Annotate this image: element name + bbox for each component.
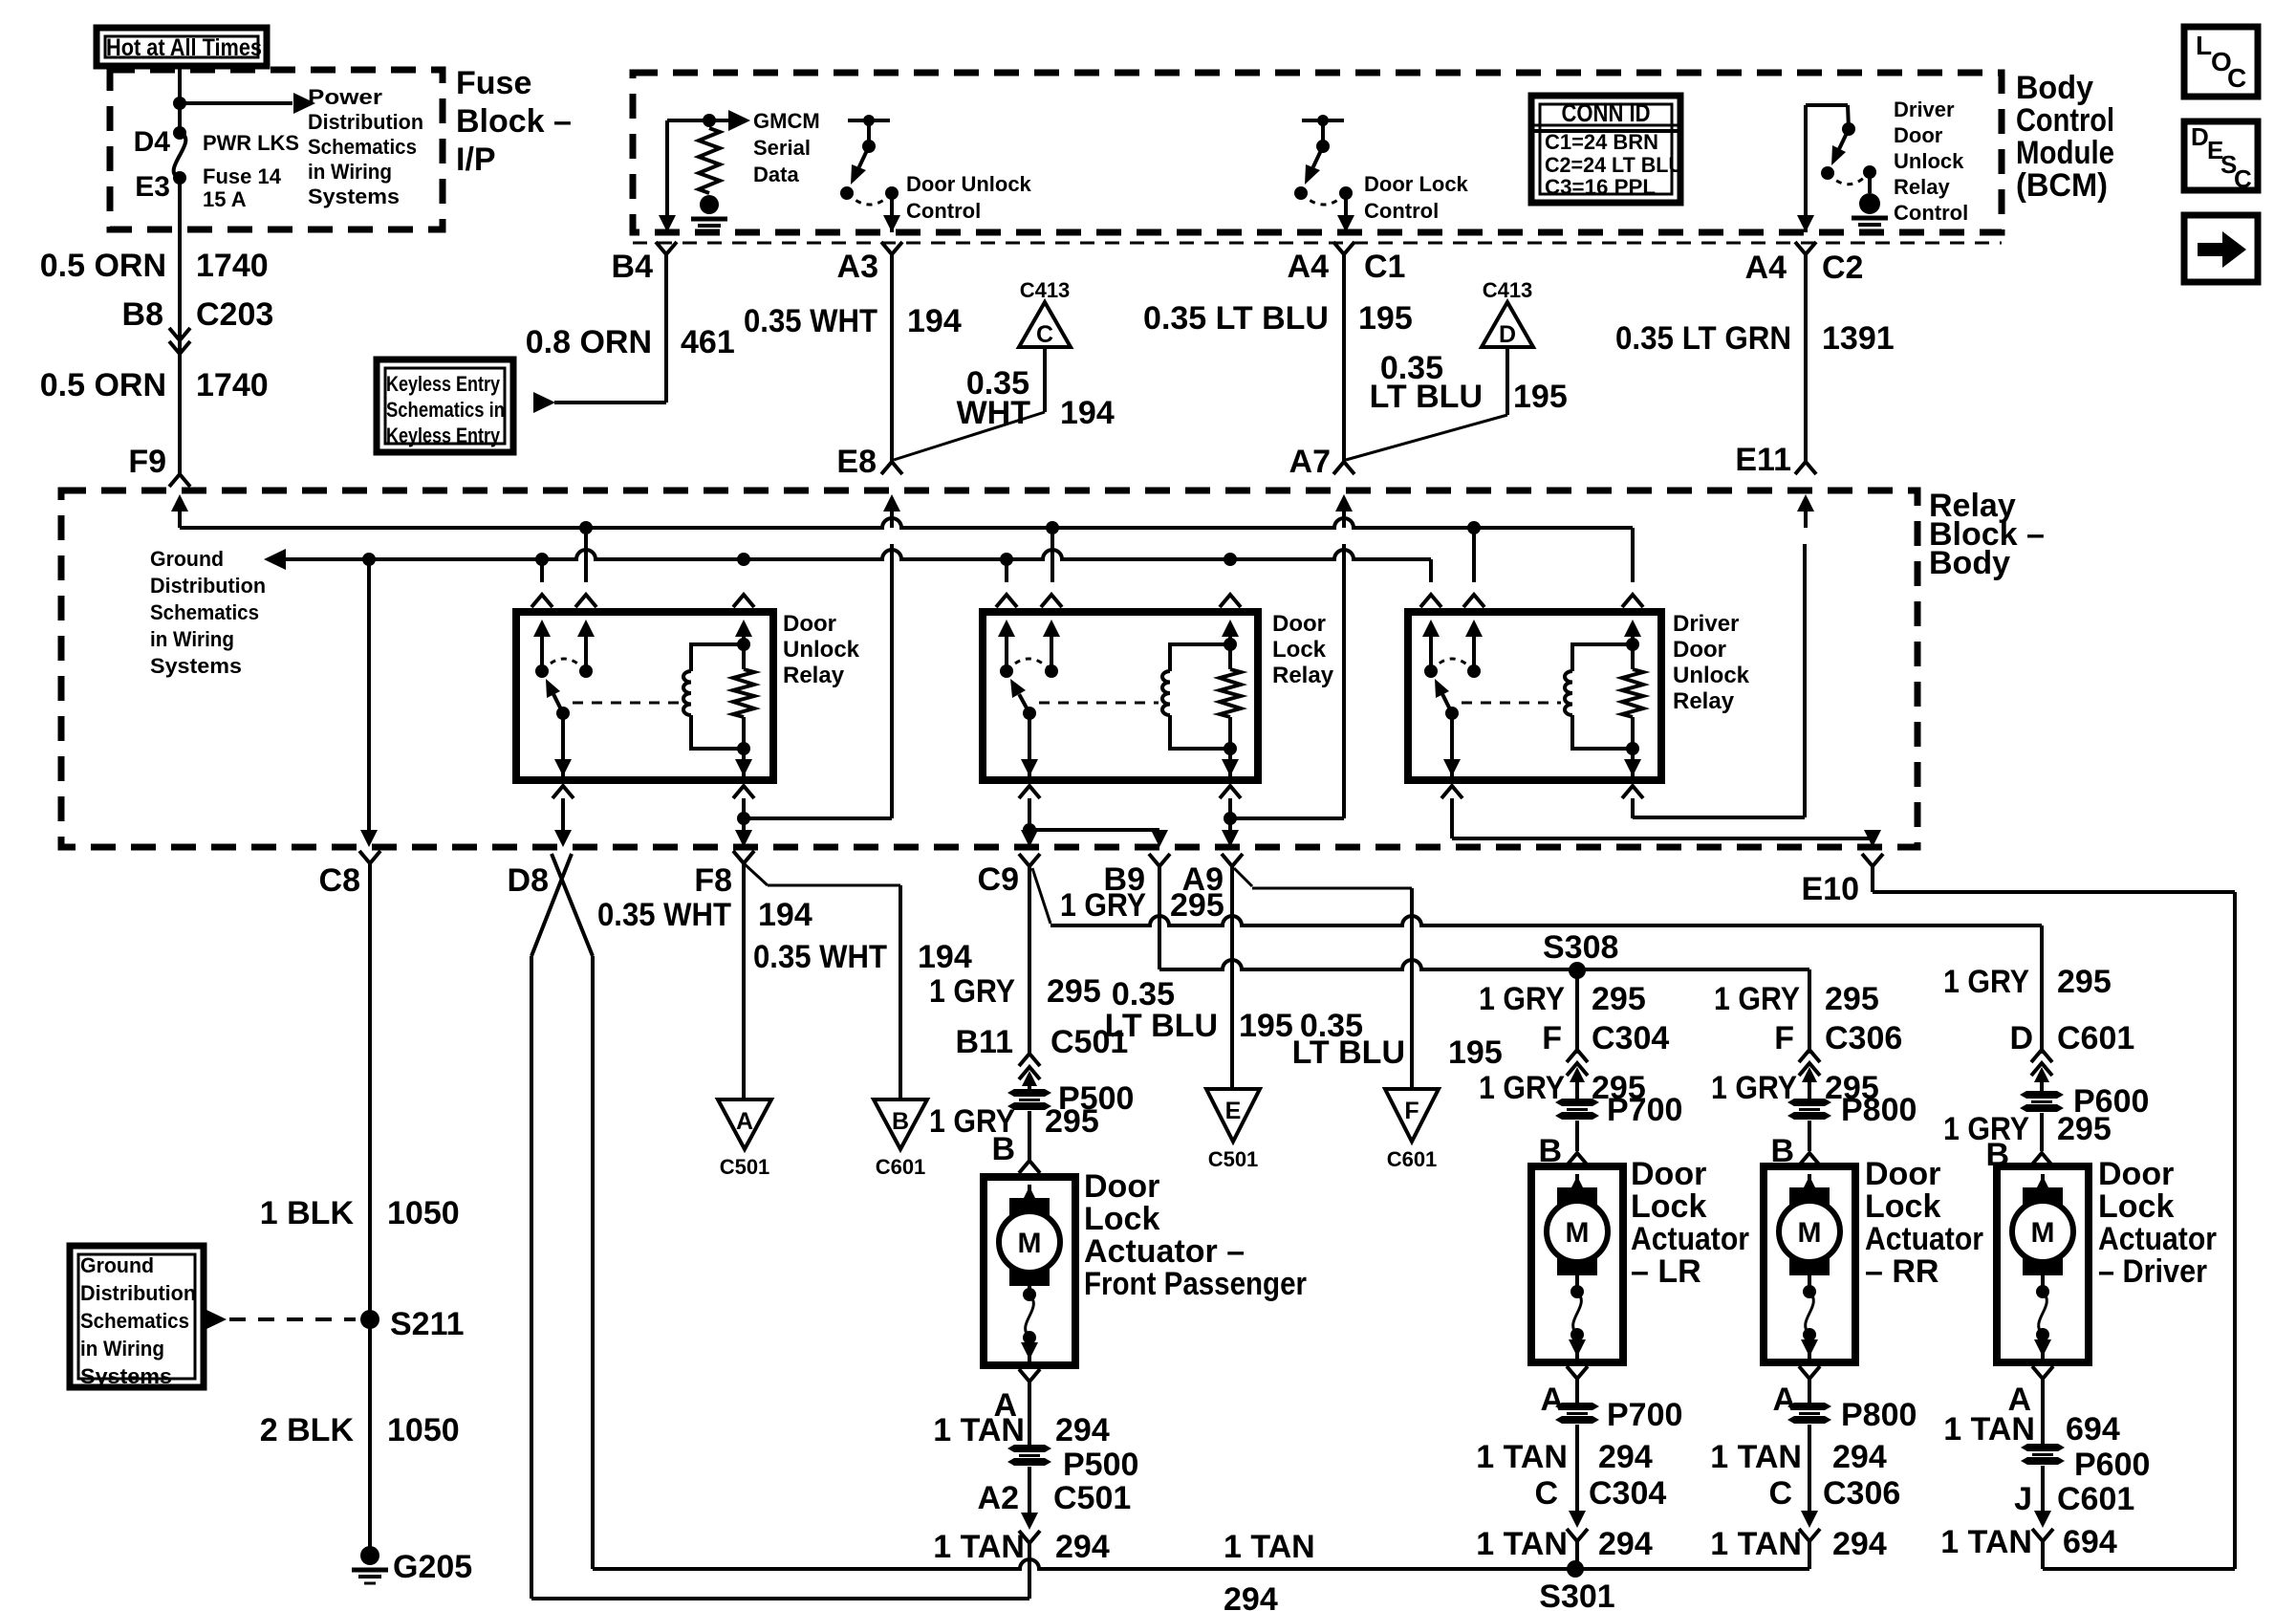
connector door unlock switch terminal 1 bbox=[531, 595, 552, 671]
label 1 GRY 295 below P600 bbox=[1943, 1111, 2112, 1147]
svg-text:C306: C306 bbox=[1823, 1475, 1900, 1512]
svg-text:A: A bbox=[1772, 1382, 1796, 1418]
svg-text:C501: C501 bbox=[1053, 1480, 1131, 1516]
svg-text:PWR LKS: PWR LKS bbox=[203, 131, 299, 155]
label 1 GRY 295 below C304 bbox=[1479, 1070, 1646, 1106]
svg-text:1740: 1740 bbox=[196, 248, 269, 284]
motor M driver bbox=[2012, 1174, 2073, 1275]
wire C9 vertical to B11 bbox=[1028, 866, 1031, 1056]
svg-text:– Driver: – Driver bbox=[2098, 1253, 2207, 1290]
svg-text:0.35 LT GRN: 0.35 LT GRN bbox=[1615, 320, 1791, 357]
svg-text:D: D bbox=[2191, 122, 2209, 151]
svg-text:M: M bbox=[1566, 1217, 1590, 1249]
svg-text:C203: C203 bbox=[196, 296, 273, 333]
svg-text:A: A bbox=[1540, 1382, 1564, 1418]
svg-text:195: 195 bbox=[1358, 300, 1413, 337]
wire P600 to driver actuator bbox=[2040, 1113, 2044, 1151]
inductor door lock coil bbox=[1162, 671, 1170, 715]
svg-text:1740: 1740 bbox=[196, 367, 269, 403]
svg-text:295: 295 bbox=[1045, 1103, 1099, 1140]
svg-text:1 TAN: 1 TAN bbox=[1940, 1524, 2032, 1560]
wire D8 right branch to S301 run bbox=[591, 956, 595, 1569]
label 1 TAN 294 above P500 bbox=[933, 1412, 1110, 1448]
svg-text:295: 295 bbox=[1825, 981, 1879, 1017]
connector pin F8 bbox=[694, 851, 754, 899]
svg-text:Unlock: Unlock bbox=[1894, 149, 1964, 173]
fuse block I/P dashed box bbox=[110, 70, 443, 229]
svg-text:1 TAN: 1 TAN bbox=[933, 1529, 1025, 1565]
svg-text:C306: C306 bbox=[1825, 1020, 1902, 1056]
svg-text:LT BLU: LT BLU bbox=[1370, 379, 1483, 415]
pin B RR actuator bbox=[1770, 1133, 1820, 1169]
svg-text:I/P: I/P bbox=[456, 142, 496, 178]
svg-text:Distribution: Distribution bbox=[150, 574, 266, 598]
svg-text:194: 194 bbox=[918, 939, 972, 975]
svg-text:1 TAN: 1 TAN bbox=[1710, 1439, 1802, 1475]
motor M RR bbox=[1779, 1174, 1840, 1275]
ground GMCM termination bbox=[691, 195, 727, 232]
pin B LR actuator bbox=[1538, 1133, 1588, 1169]
svg-text:Actuator: Actuator bbox=[2098, 1221, 2217, 1257]
svg-text:A4: A4 bbox=[1288, 249, 1330, 285]
svg-text:1 TAN: 1 TAN bbox=[933, 1412, 1025, 1448]
label C601 under triangle B bbox=[876, 1155, 926, 1179]
svg-text:2 BLK: 2 BLK bbox=[260, 1412, 355, 1448]
wire lock switch junction to B9 bbox=[1029, 830, 1168, 847]
label 0.35 WHT 194 at F8 bbox=[597, 897, 812, 933]
svg-text:D: D bbox=[1499, 321, 1516, 348]
svg-text:A4: A4 bbox=[1745, 250, 1787, 286]
node lock relay switch output junction bbox=[1023, 823, 1036, 837]
wire front passenger return to lower run bbox=[1028, 1543, 1031, 1599]
svg-text:195: 195 bbox=[1239, 1008, 1293, 1044]
svg-text:Door: Door bbox=[2098, 1156, 2174, 1192]
label Power Distribution Schematics in Wiring Systems bbox=[308, 85, 423, 208]
grommet P600 lower bbox=[2021, 1379, 2150, 1483]
pin E3 label bbox=[135, 171, 170, 203]
svg-text:Driver: Driver bbox=[1894, 98, 1955, 121]
svg-text:C2: C2 bbox=[1822, 250, 1863, 286]
svg-text:F9: F9 bbox=[128, 444, 166, 480]
label 1 TAN 694 above P600 bbox=[1943, 1411, 2120, 1448]
ground G205 bbox=[352, 1546, 472, 1585]
svg-text:Keyless Entry: Keyless Entry bbox=[386, 424, 501, 447]
svg-text:Keyless Entry: Keyless Entry bbox=[386, 372, 501, 396]
svg-text:1 TAN: 1 TAN bbox=[1476, 1439, 1568, 1475]
svg-text:C304: C304 bbox=[1589, 1475, 1666, 1512]
svg-text:295: 295 bbox=[1047, 973, 1101, 1010]
label 1 TAN 294 below C304 bbox=[1476, 1526, 1653, 1562]
svg-text:0.35 LT BLU: 0.35 LT BLU bbox=[1143, 300, 1329, 337]
pin D4 label bbox=[134, 126, 171, 158]
svg-text:195: 195 bbox=[1513, 379, 1568, 415]
inline connector C203 bbox=[169, 296, 273, 354]
wire unlock coil junction to E8 riser bbox=[744, 544, 892, 818]
wire RR return to S301 run bbox=[1808, 1541, 1811, 1569]
resistor GMCM terminating bbox=[699, 128, 720, 193]
wire lock coil junction to A7 riser bbox=[1230, 544, 1344, 818]
svg-text:M: M bbox=[2031, 1217, 2055, 1249]
label door unlock bbox=[783, 611, 860, 688]
svg-text:Control: Control bbox=[1894, 201, 1968, 225]
wire door unlock coil parallel frame bbox=[691, 638, 750, 755]
wire lock switch junction to C9 bbox=[1021, 818, 1038, 847]
wire C2 to E11 bbox=[1804, 254, 1808, 462]
label 1 TAN 294 below C306 bbox=[1710, 1526, 1887, 1562]
switch driver door unlock relay control bbox=[1806, 105, 1876, 185]
label 0.35 WHT 194 at A3 bbox=[744, 303, 962, 339]
wire door unlock switch output to box bottom bbox=[554, 713, 572, 780]
svg-text:A: A bbox=[736, 1108, 753, 1135]
svg-text:S301: S301 bbox=[1539, 1578, 1614, 1611]
svg-text:Relay: Relay bbox=[1673, 688, 1735, 714]
resistor door unlock coil suppression bbox=[733, 669, 754, 717]
svg-text:294: 294 bbox=[1598, 1439, 1653, 1475]
arrow and dashed lead to S211 bbox=[205, 1309, 356, 1330]
svg-text:D8: D8 bbox=[508, 862, 549, 899]
legend DESC box bbox=[2184, 121, 2258, 193]
label 0.35 LT BLU 195 at triangle F wire bbox=[1292, 1008, 1503, 1071]
connector pin E11 bbox=[1735, 442, 1816, 528]
ground distribution schematics reference box bbox=[70, 1246, 204, 1388]
label C501 under triangle E bbox=[1208, 1147, 1259, 1171]
switch driver position contact bbox=[2034, 1262, 2051, 1359]
svg-text:Door: Door bbox=[1631, 1156, 1706, 1192]
Hot at All Times power tag box bbox=[97, 28, 267, 66]
svg-text:694: 694 bbox=[2063, 1524, 2117, 1560]
fuse F14 PWR LKS bbox=[173, 126, 186, 185]
off-page triangle A bbox=[718, 1099, 771, 1149]
connector pin C8 bbox=[319, 851, 380, 899]
svg-text:S308: S308 bbox=[1543, 929, 1618, 966]
svg-text:C: C bbox=[1534, 1475, 1558, 1512]
svg-text:(BCM): (BCM) bbox=[2016, 167, 2108, 204]
svg-text:1 GRY: 1 GRY bbox=[929, 973, 1015, 1010]
svg-text:WHT: WHT bbox=[957, 395, 1031, 431]
connector A RR bbox=[1772, 1366, 1820, 1418]
inline connector D C601 bbox=[2009, 1020, 2134, 1092]
relay door unlock box bbox=[516, 612, 773, 780]
connector door unlock switch terminal 2 bbox=[575, 595, 596, 671]
label 1 GRY 295 below C306 bbox=[1711, 1070, 1879, 1106]
svg-text:Fuse: Fuse bbox=[456, 65, 531, 101]
svg-text:D: D bbox=[2009, 1020, 2033, 1056]
connector pin A4 C2 bbox=[1745, 242, 1864, 286]
svg-text:Front Passenger: Front Passenger bbox=[1084, 1266, 1307, 1302]
svg-text:1 TAN: 1 TAN bbox=[1943, 1411, 2035, 1448]
svg-text:Driver: Driver bbox=[1673, 611, 1739, 637]
label 2 BLK 1050 bbox=[260, 1412, 460, 1448]
wire B9 vertical and run to S308 bbox=[1159, 866, 1809, 1054]
svg-text:in Wiring: in Wiring bbox=[150, 627, 234, 651]
wire fuse output down to relay block F9 bbox=[178, 178, 182, 474]
node ground bus to lock relay switch bbox=[1000, 553, 1013, 566]
pin B driver actuator bbox=[1985, 1137, 2052, 1173]
door lock actuator RR box bbox=[1764, 1166, 1855, 1362]
node ground bus to unlock relay switch bbox=[535, 553, 549, 566]
ground driver unlock relay control pole bbox=[1852, 172, 1888, 231]
connector door lock switch terminal 2 bbox=[1041, 595, 1062, 671]
svg-text:Unlock: Unlock bbox=[783, 637, 860, 663]
svg-text:Relay: Relay bbox=[783, 663, 845, 688]
svg-text:294: 294 bbox=[1832, 1439, 1887, 1475]
wire door lock mechanical link dashed bbox=[1039, 702, 1159, 705]
svg-text:A7: A7 bbox=[1289, 444, 1331, 480]
switch door unlock control bbox=[840, 115, 899, 205]
connector pin B9 bbox=[1104, 854, 1170, 898]
svg-text:Data: Data bbox=[753, 163, 799, 186]
wire lock relay terminal2 from power bus bbox=[1051, 528, 1054, 582]
svg-text:Actuator: Actuator bbox=[1631, 1221, 1749, 1257]
svg-text:C: C bbox=[1768, 1475, 1792, 1512]
wire driver switch output to E10 bbox=[1452, 818, 1881, 847]
svg-text:GMCM: GMCM bbox=[753, 109, 820, 133]
legend LOC box bbox=[2184, 27, 2258, 97]
connector door lock switch output bbox=[1019, 786, 1040, 818]
wire triangle C to E8 bbox=[894, 347, 1045, 460]
connector pin E10 bbox=[1802, 854, 1884, 907]
wire A3 to E8 bbox=[890, 254, 894, 462]
switch front passenger position contact bbox=[1021, 1273, 1038, 1361]
connector pin A9 bbox=[1182, 854, 1243, 898]
svg-text:C1: C1 bbox=[1364, 249, 1405, 285]
wire D8 left branch to front passenger return bbox=[530, 956, 533, 1599]
svg-text:A2: A2 bbox=[978, 1480, 1019, 1516]
svg-text:Body: Body bbox=[2016, 70, 2093, 106]
svg-text:1391: 1391 bbox=[1822, 320, 1895, 357]
switch door unlock contacts bbox=[535, 659, 593, 720]
svg-text:C: C bbox=[2234, 164, 2252, 193]
label 1 TAN 294 at P800 bbox=[1710, 1439, 1887, 1475]
svg-text:1 TAN: 1 TAN bbox=[1224, 1529, 1315, 1565]
node lock relay coil output junction bbox=[1224, 812, 1237, 825]
off-page triangle E bbox=[1206, 1089, 1260, 1142]
svg-text:0.35 WHT: 0.35 WHT bbox=[753, 939, 887, 975]
node ground bus to lock relay coil bbox=[1224, 553, 1237, 566]
label Door Lock Actuator LR bbox=[1631, 1156, 1749, 1290]
wire unlock relay switch output to D8 bbox=[554, 818, 572, 847]
resistor door lock coil suppression bbox=[1220, 669, 1241, 717]
svg-text:CONN ID: CONN ID bbox=[1562, 98, 1651, 127]
connector driver door unlock coil terminal bbox=[1622, 595, 1643, 644]
door lock actuator driver box bbox=[1997, 1166, 2089, 1362]
svg-text:294: 294 bbox=[1224, 1581, 1278, 1611]
svg-text:194: 194 bbox=[907, 303, 962, 339]
svg-text:E8: E8 bbox=[836, 444, 877, 480]
svg-text:1 BLK: 1 BLK bbox=[260, 1195, 355, 1231]
svg-text:Actuator –: Actuator – bbox=[1084, 1233, 1245, 1270]
label 0.35 LT BLU 195 at triangle D bbox=[1370, 350, 1568, 415]
inline connector J C601 bbox=[2014, 1466, 2134, 1541]
svg-text:295: 295 bbox=[1170, 887, 1224, 924]
label 1 TAN 694 below J bbox=[1940, 1524, 2117, 1560]
wire triangle D to A7 bbox=[1346, 347, 1507, 460]
svg-text:1 GRY: 1 GRY bbox=[1711, 1070, 1797, 1106]
label Relay Block - Body bbox=[1929, 488, 2045, 581]
label 1 GRY 295 above B11 bbox=[929, 973, 1101, 1010]
svg-text:C: C bbox=[2227, 63, 2246, 93]
wire ground bus with left arrow bbox=[264, 549, 1431, 570]
grommet P700 upper bbox=[1555, 1092, 1682, 1128]
svg-text:C9: C9 bbox=[978, 861, 1019, 898]
svg-text:Distribution: Distribution bbox=[308, 110, 423, 134]
svg-text:F: F bbox=[1404, 1098, 1419, 1124]
svg-text:Ground: Ground bbox=[80, 1253, 154, 1277]
svg-text:B: B bbox=[892, 1108, 909, 1135]
svg-text:B: B bbox=[991, 1131, 1015, 1167]
connector A LR bbox=[1540, 1366, 1588, 1418]
connector door unlock coil terminal bbox=[733, 595, 754, 644]
inline connector C C304 bbox=[1534, 1425, 1666, 1541]
svg-text:Lock: Lock bbox=[1084, 1201, 1159, 1237]
wire door unlock coil output to box bottom bbox=[735, 749, 752, 780]
connector door lock coil terminal bbox=[1220, 595, 1241, 644]
svg-text:1 GRY: 1 GRY bbox=[1943, 964, 2029, 1000]
svg-text:Relay: Relay bbox=[1894, 175, 1950, 199]
svg-text:Body: Body bbox=[1929, 545, 2010, 581]
inline connector C C306 bbox=[1768, 1425, 1900, 1541]
wire driver relay terminal1 from ground bus end bbox=[1429, 559, 1433, 582]
svg-text:C601: C601 bbox=[1387, 1147, 1438, 1171]
resistor driver door unlock coil suppression bbox=[1622, 669, 1643, 717]
svg-text:0.5 ORN: 0.5 ORN bbox=[40, 248, 166, 284]
wire driver door unlock coil output to box bottom bbox=[1624, 749, 1641, 780]
svg-text:1 GRY: 1 GRY bbox=[1060, 887, 1146, 924]
svg-text:E10: E10 bbox=[1802, 871, 1860, 907]
inductor driver door unlock coil bbox=[1565, 671, 1572, 715]
svg-text:1 GRY: 1 GRY bbox=[1479, 981, 1565, 1017]
wire driver relay coil feed from power bus end bbox=[1631, 528, 1635, 582]
wire P500 to actuator B bbox=[1028, 1111, 1031, 1161]
svg-text:B4: B4 bbox=[612, 249, 654, 285]
label Door Lock Actuator RR bbox=[1865, 1156, 1983, 1290]
svg-text:M: M bbox=[1018, 1228, 1042, 1259]
wire door lock switch output to box bottom bbox=[1021, 713, 1038, 780]
wire A9 branch to triangle F bbox=[1234, 868, 1412, 1089]
wire driver return to E10 drop bbox=[2041, 1541, 2045, 1569]
svg-text:D4: D4 bbox=[134, 126, 171, 158]
label Fuse Block - I/P bbox=[456, 65, 572, 178]
svg-text:Unlock: Unlock bbox=[1673, 663, 1750, 688]
wire driver relay terminal2 from power bus bbox=[1472, 528, 1476, 582]
svg-text:in Wiring: in Wiring bbox=[308, 160, 392, 184]
label GMCM Serial Data bbox=[753, 109, 820, 186]
connector A front passenger bbox=[993, 1369, 1040, 1424]
wire C8 drop inside relay block bbox=[360, 559, 378, 847]
arrow to Power Distribution Schematics reference bbox=[180, 93, 315, 114]
relay door lock box bbox=[983, 612, 1258, 780]
wire lock relay terminal1 from ground bus bbox=[1005, 559, 1008, 582]
node power bus to driver relay bbox=[1467, 521, 1481, 534]
wire C9 branch run to driver actuator feed bbox=[1032, 868, 2042, 1054]
wire driver door unlock coil parallel frame bbox=[1572, 638, 1639, 755]
svg-text:0.8 ORN: 0.8 ORN bbox=[526, 324, 652, 360]
wire from Hot at All Times into fuse block bbox=[178, 63, 182, 133]
node splice S308 bbox=[1543, 929, 1618, 979]
svg-text:294: 294 bbox=[1598, 1526, 1653, 1562]
svg-text:1 GRY: 1 GRY bbox=[1479, 1070, 1565, 1106]
arrow GMCM serial data reference bbox=[709, 110, 750, 131]
door lock actuator front passenger box bbox=[984, 1177, 1075, 1365]
connector pin A7 bbox=[1289, 444, 1354, 528]
svg-text:295: 295 bbox=[2057, 1111, 2112, 1147]
grommet P800 lower bbox=[1787, 1379, 1917, 1433]
switch door lock control bbox=[1294, 115, 1353, 205]
label C413 at triangle C bbox=[1020, 278, 1071, 302]
wire unlock coil junction to F8 bbox=[735, 818, 752, 847]
connector door unlock switch output bbox=[552, 786, 574, 818]
wire P800 to RR actuator bbox=[1808, 1121, 1811, 1151]
svg-text:C601: C601 bbox=[2057, 1481, 2134, 1517]
svg-text:C8: C8 bbox=[319, 862, 360, 899]
svg-text:E3: E3 bbox=[135, 171, 170, 203]
svg-text:P600: P600 bbox=[2074, 1447, 2150, 1483]
svg-text:Control: Control bbox=[2016, 102, 2114, 139]
off-page triangle B bbox=[874, 1099, 927, 1149]
wire C8 to G205 bbox=[368, 863, 372, 1547]
inductor door unlock coil bbox=[683, 671, 691, 715]
wire F8 branch to triangle B bbox=[744, 863, 900, 1099]
connector pin E8 bbox=[836, 444, 902, 528]
svg-text:Door: Door bbox=[1272, 611, 1326, 637]
svg-text:Hot at All Times: Hot at All Times bbox=[106, 34, 262, 61]
label 1 GRY 295 above C601 bbox=[1943, 964, 2112, 1000]
node GMCM junction bbox=[703, 114, 716, 127]
connector pin D8 bbox=[508, 854, 593, 956]
connector pin C9 bbox=[978, 854, 1040, 898]
motor M LR bbox=[1547, 1174, 1608, 1275]
svg-text:G205: G205 bbox=[393, 1549, 472, 1585]
connector driver door unlock coil output bbox=[1622, 786, 1643, 818]
wire door lock coil output to box bottom bbox=[1222, 749, 1239, 780]
connector pin A4 C1 bbox=[1288, 242, 1406, 285]
label Ground Distribution Schematics in Wiring Systems bbox=[150, 547, 266, 678]
svg-text:F: F bbox=[1774, 1020, 1794, 1056]
inline connector F C304 bbox=[1542, 1020, 1669, 1099]
node splice S211 bbox=[360, 1306, 465, 1342]
wire driver unlock relay control to A4 C2 bbox=[1797, 105, 1814, 232]
wire F8 to triangle A bbox=[742, 863, 746, 1099]
BCM connector plane thin dashed line bbox=[633, 242, 2002, 245]
label Door Lock Actuator driver bbox=[2098, 1156, 2217, 1290]
svg-text:Systems: Systems bbox=[308, 185, 400, 208]
connector door unlock coil output bbox=[733, 786, 754, 818]
svg-text:1 TAN: 1 TAN bbox=[1710, 1526, 1802, 1562]
keyless entry schematics box bbox=[377, 359, 513, 452]
svg-text:Module: Module bbox=[2016, 135, 2114, 171]
wire driver coil output to E11 riser bbox=[1633, 512, 1806, 818]
grommet P500 upper bbox=[1007, 1080, 1134, 1117]
door lock actuator LR box bbox=[1531, 1166, 1623, 1362]
svg-text:F8: F8 bbox=[694, 862, 732, 899]
label 0.8 ORN 461 bbox=[526, 324, 735, 360]
connector F9 into relay block bbox=[169, 474, 190, 528]
svg-text:P700: P700 bbox=[1607, 1397, 1682, 1433]
label 0.35 WHT 194 at F8 branch bbox=[753, 939, 972, 975]
svg-text:Block –: Block – bbox=[456, 103, 572, 140]
label PWR LKS Fuse 14 15 A bbox=[203, 131, 299, 211]
svg-text:0.35 WHT: 0.35 WHT bbox=[597, 897, 731, 933]
label Door Lock Control bbox=[1364, 172, 1469, 223]
svg-text:294: 294 bbox=[1055, 1412, 1110, 1448]
switch driver door unlock contacts bbox=[1424, 659, 1481, 720]
svg-text:L: L bbox=[2196, 31, 2212, 60]
inline connector B11 C501 bbox=[956, 1024, 1129, 1096]
svg-text:Systems: Systems bbox=[150, 654, 242, 678]
svg-text:C: C bbox=[1036, 321, 1053, 348]
svg-text:194: 194 bbox=[758, 897, 812, 933]
wire door lock coil parallel frame bbox=[1170, 638, 1237, 755]
